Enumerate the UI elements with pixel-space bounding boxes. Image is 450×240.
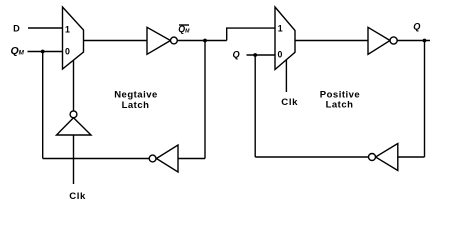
svg-text:Latch: Latch — [326, 100, 354, 111]
inverter U7 feedback triangle — [376, 144, 398, 171]
wire mux U5 select Clk2 — [285, 60, 287, 92]
wire Q output node — [397, 40, 430, 42]
inverter U2 clock triangle — [57, 118, 92, 135]
inverter U4 feedback triangle — [156, 145, 178, 172]
svg-text:Negtaive: Negtaive — [114, 89, 158, 100]
wire QM-bar node — [177, 40, 226, 42]
svg-text:1: 1 — [65, 24, 70, 34]
svg-text:Clk: Clk — [281, 97, 298, 108]
wire inverter U7 input — [398, 156, 425, 158]
svg-text:Q: Q — [233, 49, 240, 59]
wire inverter U7 output to Q — [255, 156, 368, 158]
wire Clk1 — [73, 135, 75, 184]
svg-text:Q: Q — [413, 21, 420, 31]
wire mux U5 output — [295, 40, 368, 42]
junction QM feedback — [41, 50, 45, 54]
wire Q input — [247, 54, 276, 56]
wire D input — [28, 27, 63, 29]
label QM-bar overline — [179, 24, 189, 26]
inverter U6 triangle — [368, 27, 390, 54]
svg-text:1: 1 — [278, 24, 283, 34]
mux U5 — [275, 7, 295, 70]
inverter U6 bubble — [390, 37, 397, 44]
inverter U4 bubble — [149, 155, 156, 162]
wire QM input — [28, 51, 63, 53]
wire QM-bar down — [204, 41, 206, 159]
inverter U2 clock bubble — [70, 111, 77, 118]
inverter U7 bubble — [369, 154, 376, 161]
junction QM-bar — [203, 39, 207, 43]
mux U1 — [63, 7, 84, 69]
junction Q mid feedback — [253, 53, 257, 57]
wire Q down — [424, 41, 426, 158]
wire mux U1 select — [73, 60, 75, 111]
wire feedback right vertical — [254, 55, 256, 157]
inverter U3 bubble — [171, 37, 178, 44]
junction Q output — [423, 39, 427, 43]
wire mux U1 output — [84, 40, 148, 42]
wire inverter U4 input — [178, 158, 205, 160]
inverter U3 triangle — [147, 27, 171, 54]
svg-text:0: 0 — [278, 50, 283, 60]
wire QM-bar to mux U5 input 1 — [227, 28, 275, 40]
svg-text:0: 0 — [65, 47, 70, 57]
svg-text:D: D — [13, 24, 20, 34]
svg-text:Clk: Clk — [69, 191, 86, 200]
svg-text:Latch: Latch — [122, 100, 150, 111]
wire inverter U4 output to QM — [43, 158, 150, 160]
wire feedback left vertical — [42, 52, 44, 159]
